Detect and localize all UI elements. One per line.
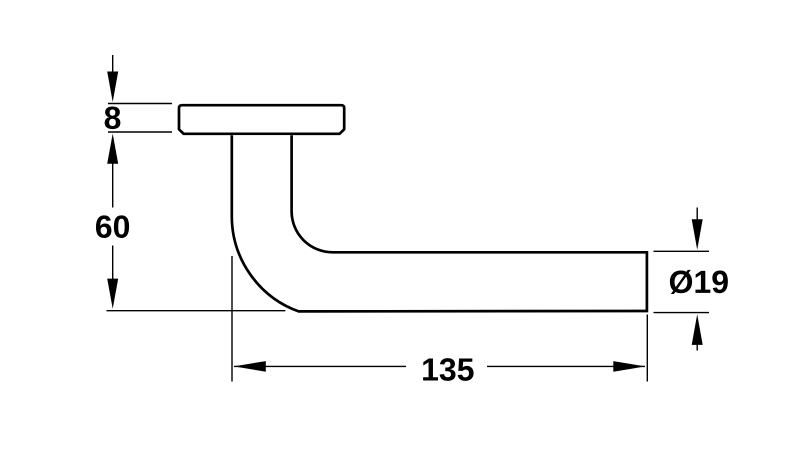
- dim 8: top extension line: [108, 103, 172, 105]
- dim 8: bottom extension line: [108, 131, 172, 133]
- dim 135: right arrowhead: [613, 361, 645, 372]
- dim 60: down arrowhead: [107, 279, 118, 309]
- dim 60: label: [96, 215, 129, 238]
- dim 8: arrow line above: [112, 55, 114, 76]
- dim 135: left arrowhead: [234, 361, 266, 372]
- dim 8: down arrowhead: [107, 72, 118, 103]
- dim d19: upper down arrowhead: [692, 219, 703, 250]
- dim 60: up arrowhead: [107, 134, 118, 164]
- dim 135: dimension line left segment: [234, 365, 406, 367]
- rose plate (top escutcheon): [179, 105, 344, 134]
- dim 135: label: [423, 358, 473, 381]
- dim 8: label: [105, 106, 121, 129]
- dim d19: bottom extension line: [654, 312, 710, 314]
- dim d19: top extension line: [654, 250, 710, 252]
- dim 60: bottom extension line: [107, 310, 286, 312]
- dim 60: dimension line upper segment: [112, 162, 114, 208]
- dim d19: lower arrow line: [696, 338, 698, 351]
- dim 135: dimension line right segment: [487, 365, 645, 367]
- lever handle outline: [232, 135, 647, 311]
- dim d19: lower up arrowhead: [692, 314, 703, 345]
- dim 135: right extension line: [646, 315, 648, 382]
- dim 135: left extension line: [231, 256, 233, 382]
- dim d19: upper arrow line: [696, 208, 698, 229]
- dim d19: label: [670, 270, 728, 294]
- dim 60: dimension line lower segment: [112, 246, 114, 281]
